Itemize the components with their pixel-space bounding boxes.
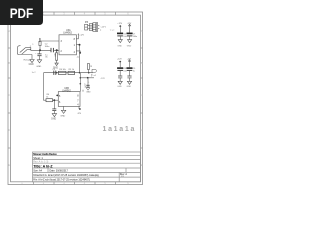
ground (R3) [55,63,58,66]
power flag arrow C9 [129,60,131,63]
svg-text:GND: GND [36,66,41,68]
svg-text:Date: 30/08/2017: Date: 30/08/2017 [50,170,69,173]
svg-text:GND: GND [117,86,122,88]
zone letter labels left margin [8,29,10,167]
wire U3A output [76,44,79,46]
op-amp U3A (IC box) [59,35,76,55]
ground (C8) [118,81,122,84]
resistor R3 bias to ground [55,53,57,60]
svg-text:100n: 100n [133,36,137,38]
power connector P3 [85,23,100,32]
-12V stub under U3B [78,106,80,109]
ground (C5) [52,114,56,117]
svg-text:-12V: -12V [100,78,105,80]
svg-text:C6: C6 [123,34,125,36]
border frame outer [8,12,143,185]
svg-text:1u: 1u [133,70,135,72]
svg-text:B: B [141,61,143,65]
wire feedback rail [44,72,93,74]
node junction at input [39,49,41,51]
svg-text:E: E [8,163,10,167]
svg-text:~-12 V: ~-12 V [100,26,107,28]
power flag node C6 [119,25,121,27]
capacitor C2 series coupling [51,48,53,52]
net flag OUT1 at rail end [92,69,97,72]
zone tick marks bottom [34,182,116,185]
svg-text:GND: GND [86,91,91,93]
svg-text:GND: GND [127,45,132,47]
ground (C1) [37,60,41,63]
op-amp U3B (IC box) [58,92,80,107]
node pin4 hook dot [76,51,80,53]
zone letter labels right margin [141,29,143,167]
svg-text:LM4562: LM4562 [63,32,72,35]
resistor R6 stage2 input [46,99,53,102]
svg-text:GND: GND [51,119,56,121]
ground (C7) [128,40,132,43]
capacitor C3 in feedback rail [54,71,56,75]
+12V flag on U3A pin 8 [76,35,78,39]
wire signal input [31,49,51,51]
svg-text:Size: A4: Size: A4 [33,170,42,173]
resistor R5 in feedback rail [68,71,75,74]
title block outline [33,152,141,182]
zone number labels top margin [21,12,129,16]
ground stub under U3B [63,106,65,110]
border frame inner [11,15,141,182]
svg-text:D: D [141,128,143,132]
svg-text:Mouser Audio Device: Mouser Audio Device [33,152,57,156]
PDF badge [0,0,43,25]
svg-text:C8: C8 [123,68,125,70]
svg-text:GND: GND [127,86,132,88]
svg-text:C9: C9 [133,68,135,70]
svg-text:R5 1k: R5 1k [69,69,74,71]
svg-text:Title: A hi-Z: Title: A hi-Z [33,164,53,168]
svg-text:+12V: +12V [84,83,86,88]
svg-text:+12V: +12V [117,58,122,60]
svg-text:10u: 10u [90,74,92,77]
svg-text:-12: -12 [77,56,80,58]
svg-text:PDF: PDF [10,6,34,21]
svg-text:C: C [8,93,10,97]
zone tick marks right [141,48,143,148]
capacitor C1 electrolytic to ground [37,50,41,60]
svg-text:+12V: +12V [79,34,84,36]
svg-text:Rev: A (v: 1-3): Rev: A (v: 1-3) [33,161,48,164]
wire output down to feedback rail [79,45,81,73]
power flag node C8 [119,61,121,63]
svg-text:GND: GND [29,64,34,66]
wire U3B lower input stub [53,100,55,108]
node feedback junctions [56,72,58,74]
zone tick marks top [34,12,116,15]
wire stage2 top node [79,73,81,92]
svg-text:10u: 10u [123,70,126,72]
wire from R2 top to op-amp +in [40,40,59,42]
svg-text:1M: 1M [54,53,56,56]
svg-text:1k: 1k [46,97,48,99]
+12V stub on U3B (rotated label) [82,90,84,92]
svg-text:E: E [141,163,143,167]
svg-text:-12V: -12V [127,23,132,25]
svg-text:+12V: +12V [117,23,122,25]
svg-text:R4 10k: R4 10k [59,69,65,71]
resistor R2 (vertical, input bias) [39,41,41,45]
wire R6 to U3B [53,99,59,101]
svg-text:1a1a1a: 1a1a1a [103,126,137,133]
zone number labels bottom margin [21,181,129,185]
svg-text:1k: 1k [89,65,91,67]
svg-text:IN 1&-2: IN 1&-2 [24,60,32,62]
svg-text:A: A [8,29,10,33]
svg-text:1u: 1u [45,54,47,56]
svg-text:C: C [141,93,143,97]
ground (C9) [127,81,131,84]
svg-text:KiCad E.D.A. kicad (2017-07-2: KiCad E.D.A. kicad (2017-07-25 revision … [33,174,99,177]
node U3A output junction [79,44,81,46]
node junction at U3B input [53,99,55,101]
capacitor C5 stage2 to ground [52,109,56,111]
svg-text:LM4562: LM4562 [62,89,71,92]
svg-text:GND: GND [60,116,65,118]
svg-text:+: + [35,53,36,55]
svg-text:GND: GND [117,45,122,47]
connector J1 audio jack [17,46,32,60]
svg-text:Sheet: 1: Sheet: 1 [33,156,43,160]
power flag arrow C7 [129,24,131,27]
svg-text:D: D [8,128,10,132]
svg-text:C7: C7 [133,34,135,36]
zone tick marks left [8,48,11,148]
ground (C6) [118,40,122,43]
resistor R7 vertical above feedback rail [88,64,90,70]
wire feedback left drop to stage 2 [44,73,47,101]
svg-text:10u: 10u [123,36,126,38]
svg-text:+: + [88,82,89,84]
node junction at op-amp inverting input [56,49,58,51]
svg-text:File: A hi-Z.sch (kicad 2017-: File: A hi-Z.sch (kicad 2017-07-25 revis… [33,178,90,181]
ground (jack sleeve) [30,60,34,63]
svg-text:A: A [141,29,143,33]
resistor R4 in feedback rail [58,71,66,74]
svg-text:-12V: -12V [127,58,132,60]
svg-text:B: B [8,61,10,65]
ground (C4) [86,88,90,91]
